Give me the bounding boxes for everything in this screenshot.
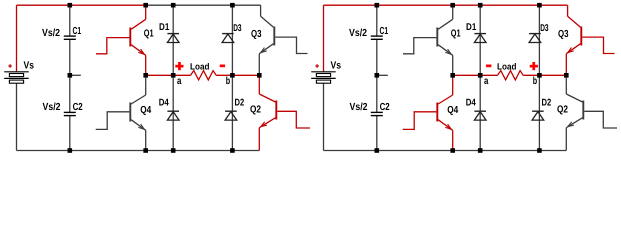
- wire: bottom rail: [324, 150, 567, 152]
- junction: rail-D3: [537, 3, 542, 8]
- diode D2: [225, 110, 237, 112]
- wire: capacitor midpoint stub: [377, 74, 388, 76]
- junction: rail-Q1: [143, 3, 148, 8]
- junction: rail-C1: [68, 3, 73, 8]
- svg-text:Q3: Q3: [558, 29, 569, 40]
- junction: rail-Q4: [450, 148, 455, 153]
- junction: rail-D4: [478, 148, 483, 153]
- battery + terminal mark: [315, 65, 319, 66]
- junction: Q1/Q4 output: [450, 73, 455, 78]
- svg-text:Q3: Q3: [251, 29, 262, 40]
- label load polarity left: [486, 65, 491, 68]
- label load polarity left: [175, 65, 183, 68]
- wire: bottom rail: [17, 150, 260, 152]
- wire: capacitor column: [376, 5, 378, 36]
- junction: rail-D2: [230, 148, 235, 153]
- junction: rail-C1: [375, 3, 380, 8]
- transistor Q4: [129, 103, 131, 122]
- wire: D3/D2 leg: [231, 5, 233, 150]
- battery Vs: [311, 71, 336, 73]
- diode D3: [529, 33, 541, 35]
- transistor Q1: [436, 28, 438, 47]
- svg-text:Q2: Q2: [250, 105, 261, 116]
- junction: rail-C2: [68, 148, 73, 153]
- svg-text:Load: Load: [497, 61, 517, 71]
- wire: output node to load (red): [453, 74, 498, 76]
- wire: top rail right section: [146, 4, 261, 6]
- node b: [230, 73, 235, 78]
- junction: Q3/Q2 output: [564, 73, 569, 78]
- svg-text:D2: D2: [542, 98, 552, 109]
- junction: rail-D4: [171, 148, 176, 153]
- svg-text:D3: D3: [540, 23, 549, 34]
- svg-text:D1: D1: [159, 22, 170, 33]
- svg-text:b: b: [533, 76, 537, 87]
- wire: D1/D4 leg: [479, 5, 481, 150]
- junction: capacitor midpoint: [68, 73, 73, 78]
- svg-text:Vs/2: Vs/2: [42, 28, 60, 39]
- junction: capacitor midpoint: [375, 73, 380, 78]
- svg-text:D1: D1: [466, 22, 477, 33]
- svg-text:D4: D4: [159, 98, 170, 109]
- junction: rail-D2: [537, 148, 542, 153]
- junction: rail-Q4: [143, 148, 148, 153]
- svg-text:Q1: Q1: [451, 28, 461, 39]
- wire: battery positive lead: [16, 5, 18, 72]
- svg-text:C1: C1: [73, 26, 82, 37]
- svg-text:D4: D4: [466, 98, 477, 109]
- wire: output node to load (red): [146, 74, 191, 76]
- battery Vs: [4, 71, 29, 73]
- wire: battery negative lead: [16, 83, 18, 150]
- capacitor C2: [64, 111, 76, 113]
- svg-text:Q4: Q4: [140, 105, 151, 116]
- junction: Q1/Q4 output: [143, 73, 148, 78]
- capacitor C2: [371, 111, 383, 113]
- diode D4: [474, 110, 486, 112]
- transistor Q2: [275, 101, 277, 120]
- diode D1: [474, 33, 486, 35]
- capacitor C1: [371, 35, 383, 37]
- capacitor C1: [64, 35, 76, 37]
- wire: battery negative lead: [323, 83, 325, 150]
- svg-text:Load: Load: [190, 61, 210, 71]
- label load polarity right: [220, 65, 225, 68]
- svg-text:Q4: Q4: [447, 105, 458, 116]
- svg-text:Q2: Q2: [557, 105, 568, 116]
- svg-text:Vs: Vs: [24, 60, 35, 71]
- junction: rail-Q1: [450, 3, 455, 8]
- diode D3: [222, 33, 234, 35]
- node b: [537, 73, 542, 78]
- node a: [478, 73, 483, 78]
- svg-text:C1: C1: [380, 26, 389, 37]
- transistor Q4: [436, 103, 438, 122]
- wire: load to output node b side (red): [216, 74, 259, 76]
- svg-text:a: a: [484, 76, 489, 87]
- transistor Q2: [582, 101, 584, 120]
- diode D4: [167, 110, 179, 112]
- svg-text:Vs/2: Vs/2: [349, 28, 367, 39]
- junction: rail-D3: [230, 3, 235, 8]
- svg-text:Vs/2: Vs/2: [350, 102, 368, 113]
- junction: Q3/Q2 output: [257, 73, 262, 78]
- svg-text:D3: D3: [233, 23, 242, 34]
- transistor Q3: [580, 27, 582, 46]
- wire: top positive rail (red highlighted section): [324, 4, 568, 6]
- transistor Q3: [273, 27, 275, 46]
- wire: battery positive lead: [323, 5, 325, 72]
- resistor: Load zigzag: [191, 71, 217, 80]
- wire: capacitor midpoint stub: [70, 74, 81, 76]
- svg-text:C2: C2: [73, 102, 83, 113]
- diode D2: [532, 110, 544, 112]
- svg-text:D2: D2: [235, 98, 245, 109]
- svg-text:Vs: Vs: [331, 60, 342, 71]
- battery + terminal mark: [8, 65, 12, 66]
- node a: [171, 73, 176, 78]
- svg-text:b: b: [226, 76, 230, 87]
- wire: D3/D2 leg: [538, 5, 540, 150]
- transistor Q1: [129, 28, 131, 47]
- wire: D1/D4 leg: [172, 5, 174, 150]
- svg-text:a: a: [177, 76, 182, 87]
- wire: capacitor column: [69, 5, 71, 36]
- svg-text:Q1: Q1: [144, 28, 154, 39]
- resistor: Load zigzag: [498, 71, 524, 80]
- wire: load to output node b side (red): [523, 74, 566, 76]
- diode D1: [167, 33, 179, 35]
- junction: rail-D1: [171, 3, 176, 8]
- junction: rail-D1: [478, 3, 483, 8]
- svg-text:C2: C2: [380, 102, 390, 113]
- label load polarity right: [530, 65, 538, 68]
- wire: top positive rail (red highlighted section): [17, 4, 146, 6]
- svg-text:Vs/2: Vs/2: [43, 102, 61, 113]
- junction: rail-C2: [375, 148, 380, 153]
